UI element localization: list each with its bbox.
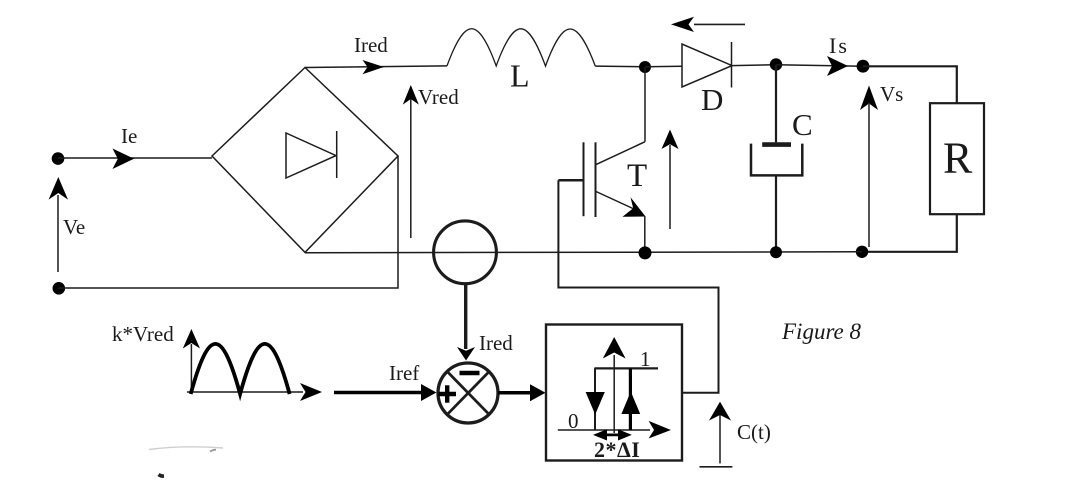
node N4 <box>639 246 652 259</box>
svg-text:Iref: Iref <box>389 361 419 385</box>
node A (AC input + terminal) <box>52 152 65 165</box>
wire (gate feedback from hysteresis output) <box>558 180 718 392</box>
scan speck marks <box>149 447 223 450</box>
wire <box>595 65 645 68</box>
wire <box>305 66 447 68</box>
arrow (summer to hysteresis block) <box>498 391 533 395</box>
hysteresis top level line <box>594 367 658 369</box>
hysteresis block <box>546 325 682 461</box>
current sensor <box>434 221 497 284</box>
arrow (transistor current direction) <box>669 145 671 229</box>
wire <box>58 157 212 159</box>
arrow Ve <box>57 195 59 272</box>
svg-text:Ie: Ie <box>121 124 137 148</box>
arrow C(t) <box>719 412 721 463</box>
axis (k*Vred waveform) <box>183 329 322 401</box>
svg-text:2*ΔI: 2*ΔI <box>594 437 640 462</box>
node B (AC input - terminal) <box>53 282 66 295</box>
arrow Ie <box>113 149 135 170</box>
node N5 <box>770 246 782 258</box>
wire <box>863 66 957 103</box>
svg-text:k*Vred: k*Vred <box>112 322 174 346</box>
wire <box>732 64 776 67</box>
arrow Iref <box>334 391 424 395</box>
hysteresis left branch (falling) <box>594 368 596 430</box>
svg-text:D: D <box>701 82 723 117</box>
svg-text:Ired: Ired <box>354 33 388 57</box>
arrow Vred <box>410 99 412 238</box>
svg-text:C: C <box>792 107 813 142</box>
svg-text:C(t): C(t) <box>737 420 771 444</box>
summing junction <box>438 363 498 423</box>
ground mark under C(t) <box>700 466 733 468</box>
wire <box>645 65 682 68</box>
svg-text:Figure 8: Figure 8 <box>781 319 861 344</box>
wire <box>776 65 863 66</box>
svg-text:0: 0 <box>568 409 579 433</box>
waveform (rectified sine) <box>191 344 290 394</box>
svg-text:Ve: Ve <box>63 215 85 239</box>
svg-text:Vs: Vs <box>880 82 903 106</box>
transistor T (IGBT) <box>558 67 645 253</box>
node N1 <box>639 61 651 73</box>
svg-text:Is: Is <box>829 33 849 58</box>
svg-text:R: R <box>943 134 973 183</box>
node N3 <box>857 60 870 73</box>
axis (hysteresis vertical) <box>613 355 615 433</box>
arrow (hysteresis width, double headed) <box>602 433 624 436</box>
axis (hysteresis horizontal) <box>558 429 650 431</box>
svg-text:L: L <box>510 58 530 94</box>
inductor L <box>447 29 595 66</box>
wire <box>58 156 398 288</box>
wire <box>863 214 957 252</box>
arrow Ired <box>363 60 385 74</box>
svg-text:Vred: Vred <box>418 85 459 109</box>
resistor R <box>930 103 984 214</box>
node N6 <box>856 246 868 258</box>
wire (sensor to summing junction, measured Ired) <box>464 284 467 350</box>
hysteresis right branch (rising, thick) <box>629 368 632 430</box>
arrow (diode reverse direction) <box>694 23 745 25</box>
diode D <box>682 42 732 88</box>
arrow Vs <box>868 104 870 247</box>
svg-text:T: T <box>627 158 647 194</box>
wire (bottom rail) <box>305 252 862 253</box>
bridge rectifier <box>212 68 398 253</box>
arrow Is <box>827 56 848 76</box>
capacitor C <box>751 65 802 253</box>
bridge diode symbol <box>286 131 337 178</box>
svg-text:Ired: Ired <box>479 331 513 355</box>
node N2 <box>770 58 782 70</box>
